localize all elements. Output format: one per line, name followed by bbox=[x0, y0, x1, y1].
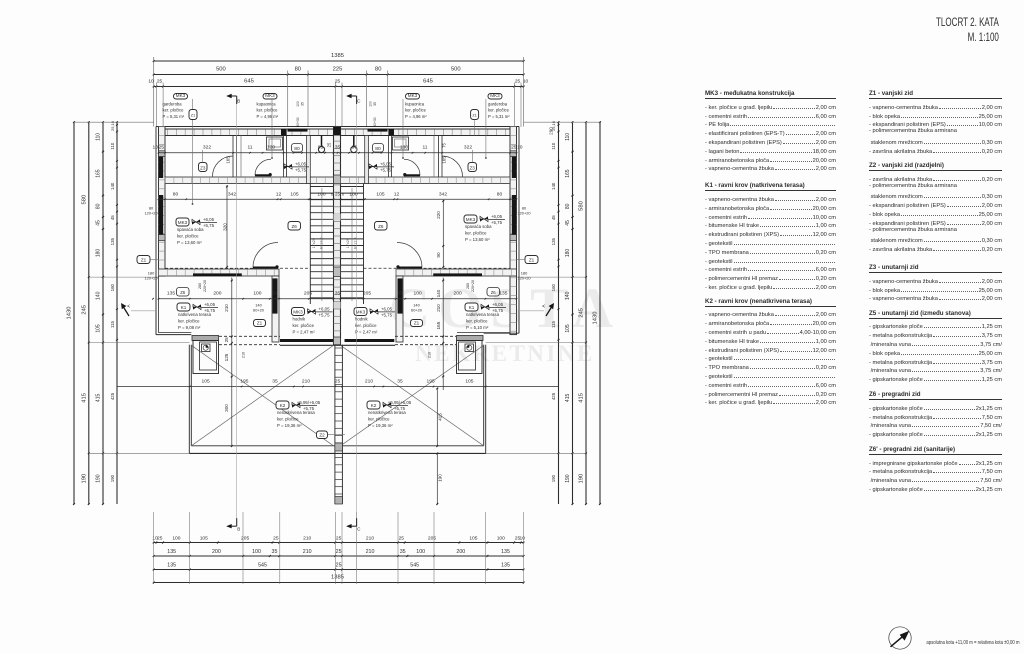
svg-text:Z6: Z6 bbox=[292, 224, 298, 229]
svg-text:35: 35 bbox=[335, 291, 341, 297]
svg-text:Z1: Z1 bbox=[141, 257, 147, 262]
svg-text:P = 19,36 m²: P = 19,36 m² bbox=[368, 423, 393, 428]
svg-text:B: B bbox=[237, 527, 240, 532]
svg-text:110: 110 bbox=[565, 133, 571, 141]
svg-text:60+30: 60+30 bbox=[373, 117, 377, 127]
svg-text:ker. pločice: ker. pločice bbox=[466, 319, 488, 324]
marker Z6 in right bedroom bbox=[375, 222, 388, 231]
interior wall below top rooms left bbox=[165, 177, 334, 184]
marker Z1 at hodnik left bbox=[254, 320, 266, 327]
svg-text:25: 25 bbox=[515, 79, 521, 85]
svg-text:100: 100 bbox=[252, 549, 261, 555]
svg-text:12: 12 bbox=[276, 191, 282, 197]
vertical dim line right of planter bbox=[442, 278, 444, 391]
svg-text:25: 25 bbox=[327, 142, 332, 147]
terrace outline bbox=[188, 345, 190, 454]
svg-text:300: 300 bbox=[224, 404, 229, 412]
svg-text:25: 25 bbox=[158, 145, 164, 151]
stair treads left flight bbox=[310, 186, 333, 188]
top wall window right unit bbox=[368, 129, 388, 132]
svg-text:spavaća soba: spavaća soba bbox=[465, 224, 492, 229]
bedroom door left bbox=[253, 243, 278, 268]
svg-text:205: 205 bbox=[428, 535, 436, 541]
svg-text:25: 25 bbox=[335, 378, 341, 384]
svg-text:Z3: Z3 bbox=[470, 165, 476, 170]
svg-text:+5,95/+6,05: +5,95/+6,05 bbox=[297, 400, 321, 405]
svg-text:35: 35 bbox=[272, 291, 278, 297]
bottom extension lines bbox=[189, 512, 191, 584]
svg-text:120+20: 120+20 bbox=[517, 211, 531, 216]
section line C bbox=[356, 104, 358, 524]
svg-text:nenatkrivena terasa: nenatkrivena terasa bbox=[277, 410, 315, 415]
svg-text:210: 210 bbox=[366, 535, 374, 541]
sink right bathroom bbox=[393, 137, 409, 150]
svg-text:P = 5,10 m²: P = 5,10 m² bbox=[466, 325, 489, 330]
svg-text:11: 11 bbox=[247, 145, 252, 151]
top dimension chain 500-80-225-80-500 bbox=[154, 74, 524, 76]
left wall jamb blocks bbox=[159, 235, 166, 241]
svg-text:17x29: 17x29 bbox=[312, 238, 316, 248]
svg-text:135: 135 bbox=[551, 237, 556, 245]
svg-text:210: 210 bbox=[224, 304, 229, 312]
svg-text:100: 100 bbox=[253, 291, 261, 297]
right outer wall band bbox=[510, 127, 517, 335]
marker Z1 above right garderoba bbox=[471, 110, 479, 120]
svg-text:ker. pločice: ker. pločice bbox=[178, 319, 200, 324]
vertical dim 190 below terrace bbox=[436, 454, 438, 505]
svg-text:100: 100 bbox=[172, 535, 180, 541]
svg-text:190: 190 bbox=[579, 474, 585, 484]
svg-text:P = 5,31 m²: P = 5,31 m² bbox=[488, 114, 510, 119]
svg-text:245: 245 bbox=[579, 308, 585, 318]
svg-text:25: 25 bbox=[336, 562, 342, 568]
svg-text:120+20: 120+20 bbox=[144, 211, 158, 216]
left dimension chain 580-245-415-190 bbox=[88, 122, 90, 504]
svg-text:MK3: MK3 bbox=[466, 217, 476, 222]
svg-text:+6,05: +6,05 bbox=[203, 217, 215, 222]
svg-text:110: 110 bbox=[551, 142, 556, 150]
svg-text:MK3: MK3 bbox=[176, 93, 186, 98]
north arrow bbox=[891, 635, 906, 647]
bedroom terrace door left (black bar) bbox=[193, 273, 242, 276]
svg-text:245: 245 bbox=[82, 305, 88, 315]
left dimension chain wall details bbox=[116, 122, 118, 504]
svg-text:105: 105 bbox=[200, 535, 208, 541]
svg-text:P = 5,31 m²: P = 5,31 m² bbox=[163, 114, 185, 119]
bottom dimension chain small segments bbox=[154, 542, 524, 544]
svg-text:100: 100 bbox=[296, 101, 300, 107]
svg-text:P = 13,60 m²: P = 13,60 m² bbox=[177, 240, 202, 245]
marker Z3 in right garderoba bbox=[468, 163, 477, 172]
svg-text:210: 210 bbox=[242, 352, 246, 358]
svg-text:95: 95 bbox=[318, 145, 324, 151]
bathroom inner partition right bbox=[391, 136, 393, 178]
planter right bbox=[457, 336, 484, 341]
svg-text:11: 11 bbox=[422, 145, 427, 151]
svg-text:K1: K1 bbox=[469, 305, 475, 310]
svg-text:190: 190 bbox=[565, 474, 571, 483]
svg-text:hodnik: hodnik bbox=[293, 317, 307, 322]
svg-text:P = 2,47 m²: P = 2,47 m² bbox=[355, 329, 378, 334]
svg-text:135: 135 bbox=[110, 237, 115, 245]
top wall corner blocks bbox=[159, 129, 165, 136]
svg-text:+5,75: +5,75 bbox=[491, 220, 503, 225]
svg-text:Z2: Z2 bbox=[319, 432, 325, 437]
K1 terrace parapet left bbox=[155, 276, 157, 335]
garderoba door arc left unit bbox=[213, 156, 234, 177]
svg-text:200: 200 bbox=[213, 291, 221, 297]
svg-text:+5,75: +5,75 bbox=[295, 167, 307, 172]
hodnik floor-edge dashed lines bbox=[219, 335, 280, 337]
svg-text:130: 130 bbox=[267, 145, 275, 151]
svg-text:Z1: Z1 bbox=[472, 114, 476, 118]
svg-text:35: 35 bbox=[335, 145, 341, 151]
title block bbox=[936, 16, 999, 46]
section marker B top bbox=[236, 96, 238, 104]
section marker C bottom bbox=[356, 518, 358, 526]
vertical dim 300 left terrace bbox=[231, 390, 233, 446]
svg-text:110: 110 bbox=[96, 133, 102, 141]
svg-text:105: 105 bbox=[565, 324, 571, 333]
svg-text:10: 10 bbox=[517, 145, 523, 151]
svg-text:Z1: Z1 bbox=[414, 320, 420, 325]
svg-text:135: 135 bbox=[501, 562, 510, 568]
svg-text:125: 125 bbox=[224, 353, 229, 361]
svg-text:ker. pločice: ker. pločice bbox=[257, 108, 279, 113]
room label spavaca soba left bbox=[176, 218, 189, 226]
svg-text:165: 165 bbox=[436, 321, 441, 329]
svg-text:80: 80 bbox=[96, 203, 102, 209]
svg-text:645: 645 bbox=[244, 79, 254, 85]
svg-text:195: 195 bbox=[427, 378, 435, 384]
svg-text:415: 415 bbox=[565, 394, 571, 403]
sink left bathroom bbox=[267, 137, 283, 150]
svg-text:25: 25 bbox=[157, 79, 163, 85]
svg-text:h=17,4: h=17,4 bbox=[320, 237, 324, 249]
svg-text:+6,05: +6,05 bbox=[318, 306, 330, 311]
svg-text:25: 25 bbox=[511, 145, 517, 151]
stair shaft outlines bbox=[309, 184, 311, 305]
svg-text:415: 415 bbox=[96, 394, 102, 403]
svg-text:MK3: MK3 bbox=[490, 93, 500, 98]
upper-strip door left unit (hall) bbox=[654, 0, 656, 1]
marker Z6 in left bedroom bbox=[288, 222, 301, 231]
svg-text:180: 180 bbox=[565, 249, 571, 258]
svg-text:205: 205 bbox=[304, 291, 312, 297]
dashed roof edge above bedroom wall right bbox=[364, 267, 511, 269]
svg-text:290: 290 bbox=[549, 127, 554, 135]
svg-text:+5,75: +5,75 bbox=[318, 312, 330, 317]
stair treads right flight bbox=[341, 186, 364, 188]
svg-text:35: 35 bbox=[301, 102, 305, 106]
stair walking lines bbox=[321, 188, 323, 301]
marker box on hodnik dim right bbox=[487, 288, 500, 297]
svg-text:80: 80 bbox=[295, 67, 301, 73]
svg-text:MK3: MK3 bbox=[178, 220, 188, 225]
svg-text:140: 140 bbox=[436, 289, 441, 297]
svg-text:140: 140 bbox=[110, 182, 115, 190]
svg-text:415: 415 bbox=[579, 393, 585, 403]
svg-text:342: 342 bbox=[439, 191, 447, 197]
footer note bbox=[926, 640, 1019, 646]
svg-text:545: 545 bbox=[258, 562, 267, 568]
svg-text:580: 580 bbox=[579, 201, 585, 211]
top dimension chain 10-25-645-25-645-25-10 bbox=[154, 86, 524, 88]
room label K2 left bbox=[276, 401, 289, 409]
svg-text:190: 190 bbox=[110, 474, 115, 482]
terrace door thresholds (black bars) bbox=[280, 339, 334, 342]
svg-text:35: 35 bbox=[373, 102, 377, 106]
svg-text:+5,75: +5,75 bbox=[380, 167, 392, 172]
svg-text:Z1: Z1 bbox=[257, 320, 263, 325]
svg-text:135: 135 bbox=[167, 291, 175, 297]
svg-text:45: 45 bbox=[110, 215, 115, 220]
svg-text:35: 35 bbox=[397, 378, 403, 384]
right dimension chain 580-245-415-190 bbox=[585, 122, 587, 504]
svg-text:Z1: Z1 bbox=[529, 257, 535, 262]
svg-text:P = 4,96 m²: P = 4,96 m² bbox=[405, 114, 427, 119]
svg-text:135: 135 bbox=[499, 291, 507, 297]
stair flanking wall band left bbox=[307, 136, 311, 184]
svg-text:140: 140 bbox=[565, 291, 571, 300]
left dimension chain 1430 bbox=[73, 122, 75, 504]
svg-text:kupaonica: kupaonica bbox=[257, 102, 277, 107]
bedroom bottom wall left bbox=[159, 269, 280, 276]
svg-text:ker. pločice: ker. pločice bbox=[293, 323, 315, 328]
svg-text:105: 105 bbox=[376, 191, 384, 197]
room label kupaonica left bbox=[263, 94, 277, 100]
svg-text:1430: 1430 bbox=[593, 312, 599, 325]
svg-text:10: 10 bbox=[519, 535, 525, 541]
svg-text:ker. pločice: ker. pločice bbox=[163, 108, 185, 113]
room label K1 left bbox=[177, 303, 190, 311]
svg-text:165: 165 bbox=[96, 169, 102, 178]
terrace dim line bbox=[117, 386, 559, 388]
svg-text:B: B bbox=[237, 99, 240, 104]
svg-text:garderoba: garderoba bbox=[488, 102, 508, 107]
svg-text:+5,95/+6,05: +5,95/+6,05 bbox=[388, 400, 412, 405]
svg-text:105: 105 bbox=[290, 191, 298, 197]
vertical dim 415 below terrace bbox=[436, 389, 438, 447]
left extension lines bbox=[74, 121, 154, 123]
svg-text:200: 200 bbox=[456, 549, 465, 555]
room label garderoba left bbox=[174, 94, 188, 100]
svg-text:natkrivena terasa: natkrivena terasa bbox=[466, 312, 500, 317]
svg-text:180: 180 bbox=[96, 249, 102, 258]
svg-text:80: 80 bbox=[565, 203, 571, 209]
svg-text:35: 35 bbox=[400, 549, 406, 555]
svg-text:ker. pločice: ker. pločice bbox=[488, 108, 510, 113]
svg-text:210: 210 bbox=[428, 352, 432, 358]
svg-text:580: 580 bbox=[82, 195, 88, 205]
svg-text:120+20: 120+20 bbox=[517, 276, 531, 281]
right dimension chain 1430 bbox=[599, 122, 601, 504]
svg-text:160: 160 bbox=[110, 283, 115, 291]
room label garderoba right bbox=[488, 94, 502, 100]
right wall window glazing bars bbox=[512, 157, 516, 179]
svg-text:25: 25 bbox=[336, 549, 342, 555]
north arrow circle bbox=[889, 627, 911, 649]
svg-text:205: 205 bbox=[363, 291, 371, 297]
interior dim line hodnik strip bbox=[159, 298, 517, 300]
central ladder below terrace bbox=[334, 345, 336, 504]
svg-text:545: 545 bbox=[410, 562, 419, 568]
svg-text:Z3: Z3 bbox=[200, 165, 206, 170]
svg-text:210: 210 bbox=[303, 549, 312, 555]
svg-text:500: 500 bbox=[451, 67, 461, 73]
svg-text:140: 140 bbox=[551, 182, 556, 190]
marker Z2 at terrace ladder bbox=[317, 431, 328, 439]
room label K1 right bbox=[465, 303, 478, 311]
room label spavaca soba right bbox=[464, 215, 477, 223]
svg-text:225: 225 bbox=[333, 67, 343, 73]
garderoba door arc right unit bbox=[442, 156, 463, 177]
outer wall top band bbox=[159, 129, 517, 136]
svg-text:645: 645 bbox=[423, 79, 433, 85]
svg-text:MK3: MK3 bbox=[265, 93, 275, 98]
svg-text:210: 210 bbox=[302, 378, 310, 384]
svg-text:80: 80 bbox=[375, 146, 381, 152]
svg-text:P = 4,96 m²: P = 4,96 m² bbox=[257, 114, 279, 119]
svg-text:ker. pločice: ker. pločice bbox=[177, 234, 199, 239]
section marker C top bbox=[356, 96, 358, 104]
svg-text:130: 130 bbox=[400, 145, 408, 151]
left wall window glazing bars bbox=[159, 157, 163, 179]
svg-text:105: 105 bbox=[96, 324, 102, 333]
svg-text:17x29: 17x29 bbox=[346, 238, 350, 248]
svg-text:35: 35 bbox=[272, 549, 278, 555]
svg-text:Z6: Z6 bbox=[491, 290, 497, 295]
WC fixture left unit bbox=[321, 136, 323, 148]
svg-text:220+20: 220+20 bbox=[471, 280, 475, 292]
section marker B bottom bbox=[236, 518, 238, 526]
svg-text:135: 135 bbox=[501, 549, 510, 555]
room label K2 right bbox=[367, 401, 380, 409]
marker box on hodnik dim left bbox=[177, 288, 190, 297]
svg-text:90: 90 bbox=[436, 252, 441, 258]
party wall bbox=[334, 127, 341, 345]
svg-text:ker. pločice: ker. pločice bbox=[277, 417, 299, 422]
top extension lines bbox=[153, 57, 155, 127]
svg-text:135: 135 bbox=[167, 562, 176, 568]
svg-text:342: 342 bbox=[228, 191, 236, 197]
svg-text:100: 100 bbox=[497, 535, 505, 541]
svg-text:190: 190 bbox=[96, 474, 102, 483]
svg-text:205: 205 bbox=[241, 535, 249, 541]
svg-text:spavaća soba: spavaća soba bbox=[177, 227, 204, 232]
marker Z1 outside left wall bbox=[137, 256, 150, 264]
svg-text:6: 6 bbox=[342, 192, 344, 196]
svg-text:60+20: 60+20 bbox=[411, 308, 423, 313]
svg-text:200: 200 bbox=[454, 291, 462, 297]
svg-text:190: 190 bbox=[82, 474, 88, 484]
svg-text:ker. pločice: ker. pločice bbox=[355, 323, 377, 328]
svg-text:105: 105 bbox=[465, 378, 473, 384]
svg-text:A: A bbox=[126, 304, 131, 308]
svg-text:natkrivena terasa: natkrivena terasa bbox=[178, 312, 212, 317]
terrace diagonals left bbox=[191, 345, 333, 446]
svg-text:MK3: MK3 bbox=[356, 309, 366, 314]
svg-text:MK3: MK3 bbox=[293, 309, 303, 314]
svg-text:h=17,4: h=17,4 bbox=[354, 237, 358, 249]
svg-text:80: 80 bbox=[294, 146, 300, 152]
interior wall below top rooms right bbox=[341, 177, 511, 184]
svg-text:160: 160 bbox=[551, 283, 556, 291]
svg-text:210: 210 bbox=[366, 549, 375, 555]
bathroom door left bbox=[255, 159, 271, 175]
svg-text:415: 415 bbox=[438, 413, 443, 421]
svg-text:100: 100 bbox=[369, 101, 373, 107]
svg-text:+5,75: +5,75 bbox=[381, 312, 393, 317]
planter left bbox=[192, 336, 219, 341]
svg-text:500: 500 bbox=[216, 67, 226, 73]
svg-text:210: 210 bbox=[303, 535, 311, 541]
svg-text:MK3: MK3 bbox=[408, 93, 418, 98]
svg-text:105: 105 bbox=[469, 535, 477, 541]
hodnik side wall left bbox=[272, 276, 279, 342]
boxed 80 label left bathroom bbox=[292, 144, 303, 153]
svg-text:10: 10 bbox=[152, 145, 158, 151]
svg-text:280: 280 bbox=[466, 283, 470, 289]
svg-text:ker. pločice: ker. pločice bbox=[405, 108, 427, 113]
left dimension chain detailed bbox=[102, 122, 104, 504]
svg-text:1385: 1385 bbox=[331, 53, 344, 59]
bottom dimension chain 135-200-100-35-210-25-210-35-100-200-135 bbox=[154, 555, 524, 557]
svg-text:kupaonica: kupaonica bbox=[405, 102, 425, 107]
svg-text:25,10: 25,10 bbox=[110, 120, 115, 131]
svg-text:K2: K2 bbox=[280, 403, 286, 408]
svg-text:195: 195 bbox=[240, 378, 248, 384]
svg-text:80: 80 bbox=[375, 67, 381, 73]
svg-text:220+20: 220+20 bbox=[203, 280, 207, 292]
svg-text:320: 320 bbox=[223, 223, 228, 231]
svg-text:P = 9,08 m²: P = 9,08 m² bbox=[178, 325, 201, 330]
svg-text:140: 140 bbox=[96, 291, 102, 300]
svg-text:+6,05: +6,05 bbox=[492, 302, 504, 307]
svg-text:nenatkrivena terasa: nenatkrivena terasa bbox=[368, 410, 406, 415]
marker Z3 in left garderoba bbox=[199, 163, 208, 172]
bottom dimension chain 135-545-25-545-135 bbox=[154, 569, 524, 571]
svg-text:P = 2,47 m²: P = 2,47 m² bbox=[293, 329, 316, 334]
svg-text:220: 220 bbox=[436, 211, 441, 219]
svg-text:25: 25 bbox=[157, 535, 163, 541]
WC fixture right unit bbox=[353, 136, 355, 148]
svg-text:80: 80 bbox=[173, 191, 179, 197]
svg-text:C: C bbox=[357, 99, 361, 104]
svg-text:190: 190 bbox=[438, 474, 443, 482]
svg-text:35: 35 bbox=[272, 378, 278, 384]
watermark bbox=[389, 277, 621, 366]
right extension lines bbox=[524, 121, 600, 123]
svg-text:12: 12 bbox=[394, 191, 400, 197]
room label hodnik left bbox=[292, 308, 305, 316]
marker Z1 outside right wall bbox=[525, 256, 538, 264]
svg-text:+6,05: +6,05 bbox=[380, 161, 392, 166]
svg-text:165: 165 bbox=[442, 156, 447, 164]
svg-text:200: 200 bbox=[212, 549, 221, 555]
vertical dim line left bedroom bbox=[226, 185, 228, 267]
bathroom door right bbox=[404, 159, 420, 175]
svg-text:Z6: Z6 bbox=[180, 290, 186, 295]
svg-text:garderoba: garderoba bbox=[163, 102, 183, 107]
svg-text:ker. pločice: ker. pločice bbox=[465, 231, 487, 236]
top dimension chain 1385 bbox=[154, 60, 524, 62]
svg-text:110: 110 bbox=[110, 142, 115, 150]
svg-text:+6,05: +6,05 bbox=[491, 214, 503, 219]
svg-text:210: 210 bbox=[436, 304, 441, 312]
level flag bathroom left bbox=[284, 164, 292, 169]
legend column 2 bbox=[869, 90, 1002, 492]
